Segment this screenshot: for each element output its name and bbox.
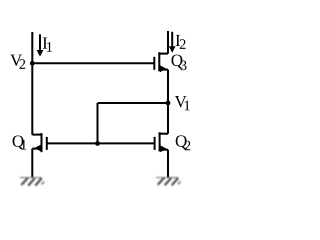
wire Q1 source down [31,149,33,178]
current source I1 arrow [37,34,44,56]
node V1 [166,101,171,106]
label I2 [176,35,186,49]
label V1 [175,96,190,110]
wire gate line Q1 to Q2 [47,142,155,144]
wire right rail Q3 source to Q2 drain [167,70,169,134]
transistor Q3 [154,52,168,72]
ground under Q1 [20,178,44,186]
current source I2 arrow [169,32,176,53]
label I1 [43,37,52,51]
wire Q2 source down [167,150,169,178]
label Q1 [13,135,27,149]
wire top horizontal V2 to Q3 gate [32,62,154,64]
junction node on gate line [95,141,100,146]
wire left rail V2 down to Q1 drain [31,63,33,134]
wire middle vertical [97,103,99,143]
label V2 [10,55,25,69]
transistor Q1 [32,133,47,152]
wire right top stub [167,31,169,54]
transistor Q2 [155,132,168,152]
node V2 [30,61,35,66]
label Q3 [172,55,187,71]
ground under Q2 [156,178,180,186]
label Q2 [176,135,191,150]
wire V1 horizontal [98,102,169,104]
wire left top stub [31,32,33,63]
